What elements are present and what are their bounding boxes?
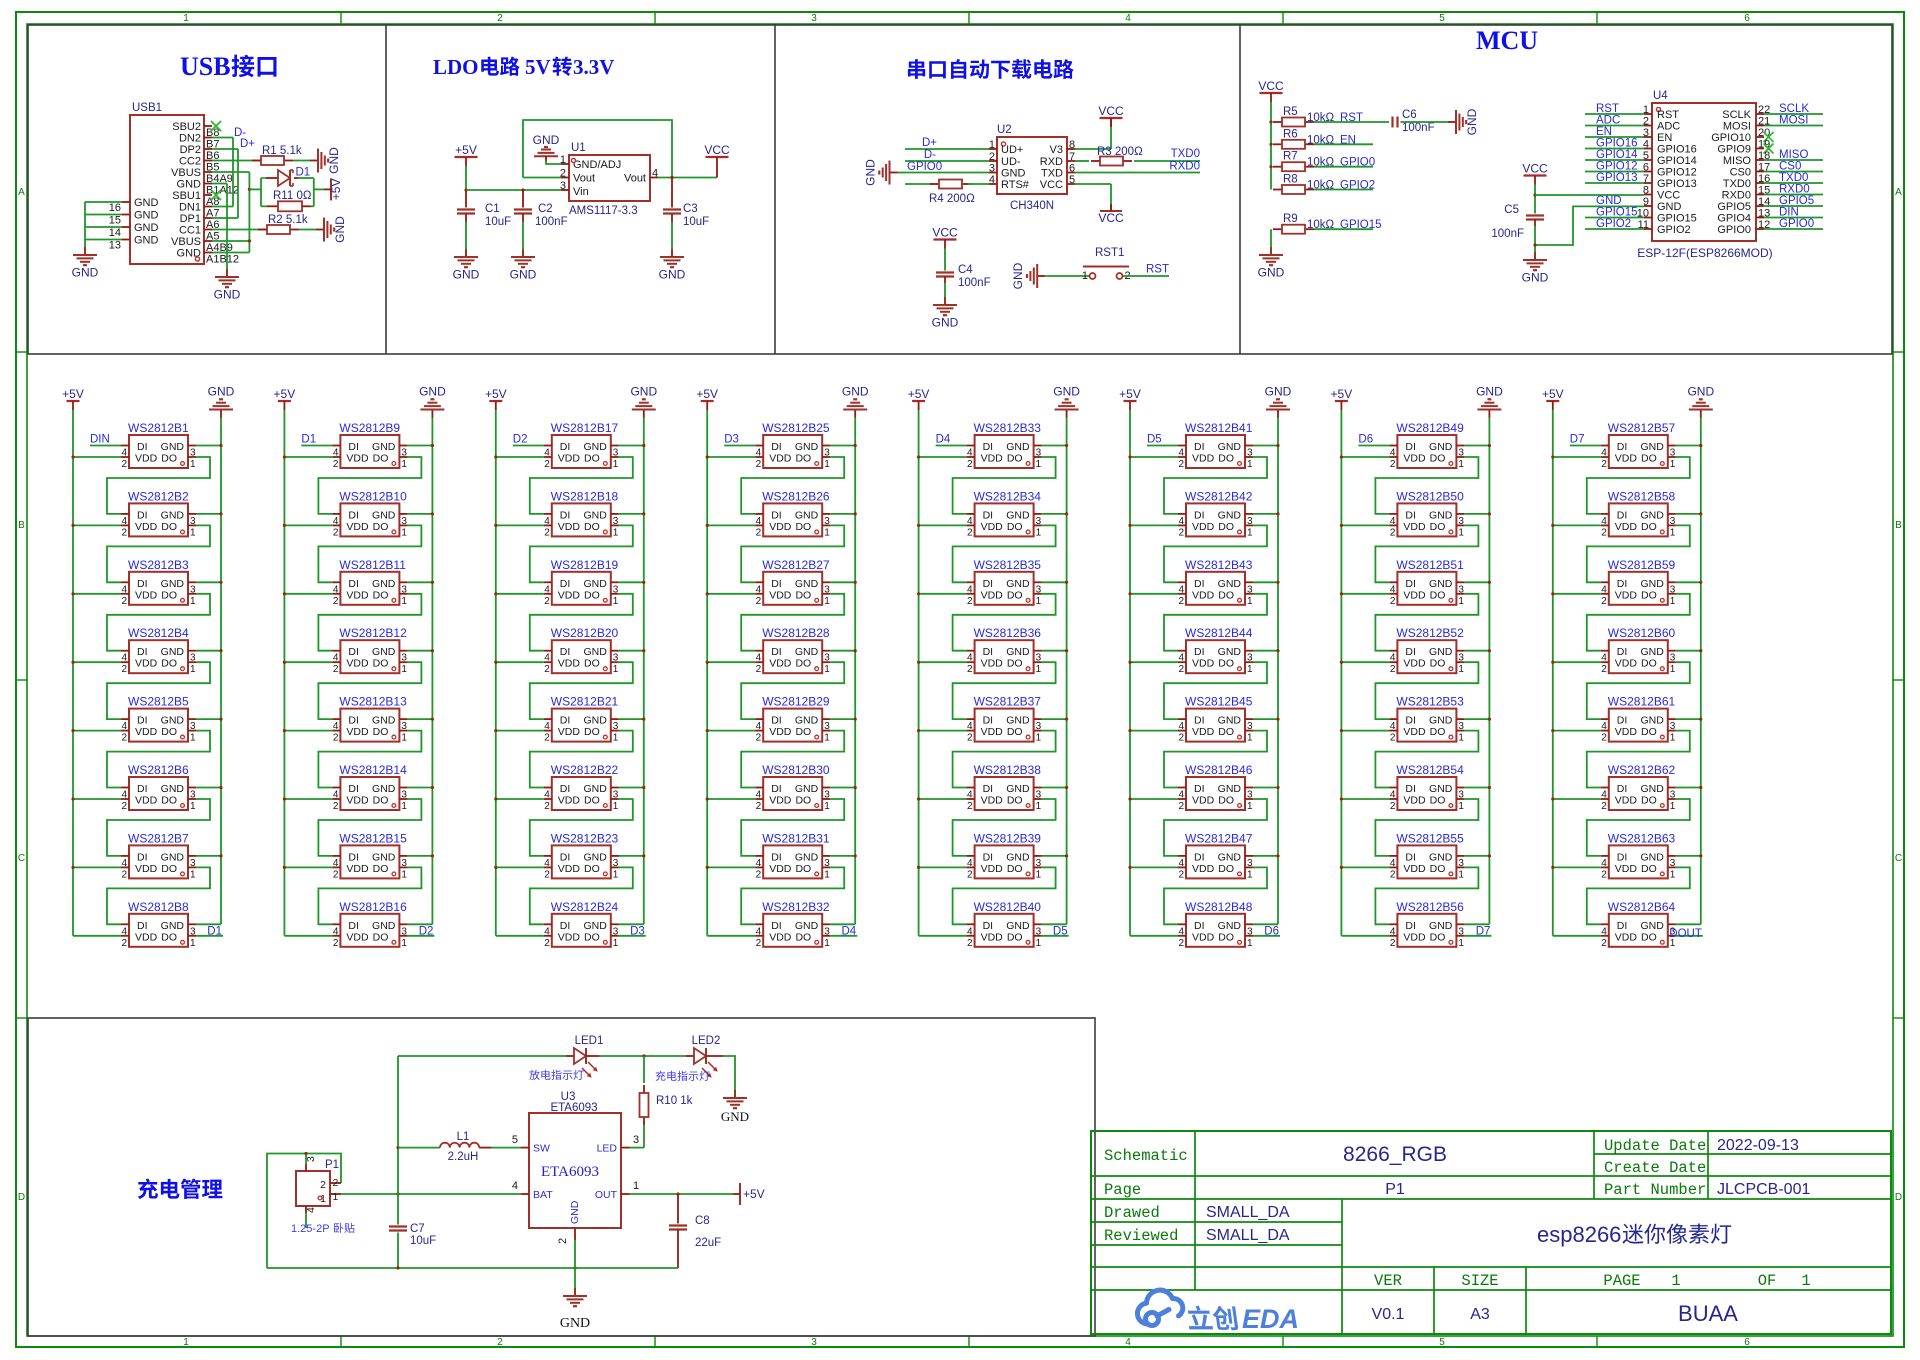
svg-text:4: 4 (1390, 448, 1396, 459)
svg-text:3: 3 (1247, 721, 1253, 732)
svg-text:4: 4 (756, 653, 762, 664)
svg-text:DI: DI (771, 715, 782, 727)
svg-text:Schematic: Schematic (1104, 1147, 1188, 1165)
svg-text:2: 2 (1178, 596, 1184, 607)
svg-text:DI: DI (348, 715, 359, 727)
svg-text:3: 3 (401, 790, 407, 801)
svg-text:WS2812B57: WS2812B57 (1608, 421, 1676, 435)
svg-text:WS2812B35: WS2812B35 (974, 558, 1042, 572)
svg-text:DO: DO (1641, 726, 1657, 738)
svg-text:R1 5.1k: R1 5.1k (262, 145, 302, 157)
svg-text:4: 4 (967, 516, 973, 527)
svg-text:GPIO15: GPIO15 (1596, 207, 1638, 219)
svg-text:4: 4 (544, 653, 550, 664)
svg-text:3: 3 (190, 721, 196, 732)
svg-text:VDD: VDD (558, 589, 581, 601)
svg-text:DIN: DIN (90, 434, 110, 446)
svg-text:DI: DI (560, 441, 571, 453)
svg-text:DO: DO (1218, 795, 1234, 807)
svg-text:GND: GND (161, 851, 185, 863)
svg-text:+5V: +5V (485, 387, 507, 401)
svg-text:4: 4 (652, 168, 658, 180)
svg-text:2: 2 (1178, 664, 1184, 675)
svg-text:WS2812B59: WS2812B59 (1608, 558, 1676, 572)
svg-text:DO: DO (1218, 931, 1234, 943)
svg-text:2: 2 (544, 801, 550, 812)
svg-text:GND: GND (1640, 715, 1664, 727)
svg-text:JLCPCB-001: JLCPCB-001 (1717, 1181, 1810, 1198)
svg-text:DI: DI (771, 578, 782, 590)
svg-text:DO: DO (584, 863, 600, 875)
svg-text:DI: DI (137, 441, 148, 453)
svg-text:4: 4 (756, 516, 762, 527)
svg-text:4: 4 (1178, 721, 1184, 732)
svg-text:MISO: MISO (1723, 155, 1752, 167)
svg-text:GND: GND (372, 646, 396, 658)
svg-text:V3: V3 (1050, 144, 1063, 156)
svg-text:DN1: DN1 (179, 202, 201, 214)
svg-text:GND: GND (1218, 851, 1242, 863)
svg-text:GND: GND (1522, 271, 1549, 285)
svg-text:4: 4 (756, 584, 762, 595)
svg-text:WS2812B22: WS2812B22 (551, 763, 619, 777)
svg-text:4: 4 (1178, 790, 1184, 801)
svg-text:1: 1 (1670, 801, 1676, 812)
svg-text:GND: GND (372, 783, 396, 795)
svg-text:3: 3 (401, 584, 407, 595)
svg-text:DI: DI (1194, 783, 1205, 795)
svg-text:3: 3 (1036, 790, 1042, 801)
svg-text:4: 4 (333, 858, 339, 869)
svg-text:2: 2 (333, 527, 339, 538)
svg-text:3: 3 (824, 448, 830, 459)
svg-text:DO: DO (1430, 795, 1446, 807)
svg-text:WS2812B32: WS2812B32 (762, 900, 830, 914)
svg-text:1: 1 (613, 527, 619, 538)
svg-text:TXD0: TXD0 (1779, 172, 1808, 184)
svg-text:GND: GND (1429, 715, 1453, 727)
svg-text:GPIO10: GPIO10 (1711, 132, 1751, 144)
svg-text:WS2812B2: WS2812B2 (128, 489, 189, 503)
svg-text:3: 3 (1247, 926, 1253, 937)
svg-text:2: 2 (1601, 664, 1607, 675)
svg-text:3: 3 (1458, 584, 1464, 595)
svg-text:1: 1 (1247, 938, 1253, 949)
svg-text:4: 4 (1601, 516, 1607, 527)
svg-text:3: 3 (824, 926, 830, 937)
svg-text:3: 3 (1458, 516, 1464, 527)
svg-text:WS2812B58: WS2812B58 (1608, 489, 1676, 503)
svg-text:RXD0: RXD0 (1169, 161, 1200, 173)
svg-text:GND: GND (863, 159, 877, 186)
svg-text:4: 4 (333, 653, 339, 664)
svg-text:GND: GND (1429, 578, 1453, 590)
svg-text:WS2812B19: WS2812B19 (551, 558, 619, 572)
svg-text:10uF: 10uF (485, 216, 511, 228)
svg-text:WS2812B52: WS2812B52 (1396, 626, 1464, 640)
svg-text:UD-: UD- (1001, 156, 1021, 168)
svg-text:5V: 5V (525, 55, 551, 79)
svg-text:2: 2 (497, 1337, 503, 1348)
svg-text:VDD: VDD (981, 726, 1004, 738)
svg-text:DOUT: DOUT (1669, 928, 1702, 940)
svg-text:1: 1 (633, 1180, 639, 1192)
svg-text:2: 2 (1390, 527, 1396, 538)
svg-text:+5V: +5V (1119, 387, 1141, 401)
svg-text:SCLK: SCLK (1779, 103, 1809, 115)
svg-text:C5: C5 (1504, 204, 1519, 216)
svg-text:2: 2 (1601, 596, 1607, 607)
svg-text:Vout: Vout (573, 173, 595, 185)
svg-text:VDD: VDD (558, 795, 581, 807)
svg-text:3: 3 (1458, 721, 1464, 732)
svg-text:14: 14 (109, 227, 121, 239)
svg-text:RXD: RXD (1040, 156, 1063, 168)
svg-text:2: 2 (967, 869, 973, 880)
svg-text:GND: GND (1218, 920, 1242, 932)
svg-text:VDD: VDD (558, 726, 581, 738)
svg-text:4: 4 (333, 721, 339, 732)
svg-text:VDD: VDD (769, 726, 792, 738)
svg-text:2: 2 (1601, 869, 1607, 880)
svg-text:GND: GND (1465, 108, 1479, 135)
svg-text:100nF: 100nF (535, 216, 568, 228)
svg-text:DI: DI (137, 920, 148, 932)
svg-text:1: 1 (333, 1191, 339, 1203)
svg-text:GND: GND (583, 578, 607, 590)
svg-text:DO: DO (1007, 795, 1023, 807)
svg-text:3: 3 (1458, 448, 1464, 459)
svg-text:GND: GND (333, 216, 347, 243)
svg-text:GND: GND (1640, 783, 1664, 795)
svg-text:3: 3 (1670, 721, 1676, 732)
svg-text:1: 1 (1670, 869, 1676, 880)
svg-text:GND: GND (932, 316, 959, 330)
svg-text:3: 3 (613, 516, 619, 527)
svg-text:RXD0: RXD0 (1722, 190, 1751, 202)
svg-text:4: 4 (121, 926, 127, 937)
svg-text:2: 2 (544, 596, 550, 607)
svg-text:4: 4 (1390, 721, 1396, 732)
svg-text:SMALL_DA: SMALL_DA (1206, 1204, 1290, 1221)
svg-text:DI: DI (560, 578, 571, 590)
svg-text:9: 9 (1643, 196, 1649, 208)
svg-text:4: 4 (1601, 653, 1607, 664)
svg-text:GND: GND (161, 715, 185, 727)
svg-text:GND: GND (161, 920, 185, 932)
svg-text:2.2uH: 2.2uH (448, 1151, 479, 1163)
svg-text:DN2: DN2 (179, 133, 201, 145)
svg-text:4: 4 (512, 1180, 518, 1192)
svg-text:VDD: VDD (135, 521, 158, 533)
svg-text:GND: GND (372, 509, 396, 521)
svg-text:VDD: VDD (1192, 658, 1215, 670)
svg-text:4: 4 (1601, 448, 1607, 459)
svg-text:DI: DI (1194, 441, 1205, 453)
svg-text:DO: DO (795, 726, 811, 738)
svg-text:1: 1 (1458, 733, 1464, 744)
svg-text:7: 7 (1069, 151, 1075, 163)
svg-text:1: 1 (401, 801, 407, 812)
svg-text:DI: DI (983, 851, 994, 863)
svg-text:4: 4 (121, 721, 127, 732)
svg-text:DI: DI (983, 646, 994, 658)
svg-text:VDD: VDD (1192, 931, 1215, 943)
svg-text:VDD: VDD (346, 658, 369, 670)
svg-text:DO: DO (795, 521, 811, 533)
svg-text:C7: C7 (410, 1223, 425, 1235)
svg-text:DO: DO (795, 589, 811, 601)
svg-text:WS2812B44: WS2812B44 (1185, 626, 1253, 640)
svg-text:VDD: VDD (1403, 726, 1426, 738)
svg-text:3: 3 (1247, 790, 1253, 801)
svg-text:GND: GND (1006, 715, 1030, 727)
svg-text:GND: GND (583, 441, 607, 453)
svg-text:2: 2 (1601, 938, 1607, 949)
svg-text:4: 4 (305, 1207, 317, 1213)
svg-text:DI: DI (771, 851, 782, 863)
svg-text:VDD: VDD (135, 453, 158, 465)
svg-text:4: 4 (1125, 13, 1131, 24)
svg-text:2: 2 (756, 596, 762, 607)
svg-text:A1B12: A1B12 (206, 254, 239, 266)
svg-text:GND: GND (1006, 851, 1030, 863)
svg-text:GND/ADJ: GND/ADJ (573, 159, 621, 171)
svg-text:R9: R9 (1283, 213, 1298, 225)
svg-text:4: 4 (333, 790, 339, 801)
svg-text:1: 1 (190, 938, 196, 949)
svg-text:GND: GND (161, 441, 185, 453)
svg-text:GND: GND (1640, 646, 1664, 658)
svg-text:4: 4 (121, 858, 127, 869)
svg-text:2: 2 (121, 733, 127, 744)
svg-text:GPIO2: GPIO2 (1596, 218, 1631, 230)
svg-text:1: 1 (1036, 938, 1042, 949)
svg-text:1: 1 (613, 938, 619, 949)
svg-text:GPIO5: GPIO5 (1717, 201, 1751, 213)
svg-text:4: 4 (121, 653, 127, 664)
svg-text:Vout: Vout (624, 173, 646, 185)
svg-text:3: 3 (824, 858, 830, 869)
svg-text:BUAA: BUAA (1678, 1301, 1738, 1326)
svg-text:4: 4 (544, 926, 550, 937)
svg-text:1: 1 (401, 733, 407, 744)
svg-text:C3: C3 (683, 203, 698, 215)
svg-text:Part Number: Part Number (1604, 1181, 1706, 1199)
svg-text:4: 4 (1601, 858, 1607, 869)
svg-text:VDD: VDD (346, 453, 369, 465)
svg-text:2: 2 (756, 938, 762, 949)
svg-text:AMS1117-3.3: AMS1117-3.3 (569, 205, 638, 217)
svg-text:DI: DI (983, 715, 994, 727)
svg-text:DI: DI (1617, 578, 1628, 590)
svg-text:WS2812B15: WS2812B15 (339, 831, 407, 845)
svg-text:4: 4 (1125, 1337, 1131, 1348)
svg-text:4: 4 (1601, 584, 1607, 595)
svg-text:Drawed: Drawed (1104, 1204, 1160, 1222)
svg-text:1: 1 (1036, 527, 1042, 538)
svg-text:2: 2 (1178, 869, 1184, 880)
svg-text:4: 4 (967, 653, 973, 664)
svg-text:GND: GND (795, 646, 819, 658)
svg-text:OF: OF (1758, 1272, 1777, 1290)
svg-text:BAT: BAT (533, 1189, 553, 1201)
svg-text:LDO: LDO (433, 55, 479, 79)
svg-text:GND: GND (1640, 851, 1664, 863)
svg-text:A3: A3 (1470, 1306, 1490, 1323)
svg-text:WS2812B45: WS2812B45 (1185, 695, 1253, 709)
svg-text:1: 1 (613, 733, 619, 744)
svg-text:WS2812B4: WS2812B4 (128, 626, 189, 640)
svg-text:DI: DI (1617, 783, 1628, 795)
svg-text:3: 3 (824, 721, 830, 732)
svg-text:DI: DI (1405, 715, 1416, 727)
svg-text:100nF: 100nF (958, 277, 991, 289)
svg-text:2: 2 (320, 1179, 326, 1191)
svg-text:DI: DI (983, 920, 994, 932)
svg-text:RST: RST (1146, 264, 1169, 276)
svg-text:1: 1 (183, 13, 189, 24)
svg-text:WS2812B55: WS2812B55 (1396, 831, 1464, 845)
svg-text:R8: R8 (1283, 174, 1298, 186)
svg-text:GND: GND (1429, 509, 1453, 521)
svg-text:3: 3 (1458, 653, 1464, 664)
svg-text:DO: DO (795, 931, 811, 943)
svg-text:1: 1 (989, 139, 995, 151)
svg-text:RST: RST (1596, 103, 1619, 115)
svg-text:GND: GND (134, 235, 159, 247)
svg-text:SBU2: SBU2 (172, 121, 201, 133)
svg-text:esp8266: esp8266 (1537, 1222, 1621, 1247)
svg-text:1: 1 (1247, 869, 1253, 880)
svg-text:4: 4 (1178, 858, 1184, 869)
svg-text:RST1: RST1 (1095, 247, 1124, 259)
svg-text:TXD0: TXD0 (1723, 178, 1751, 190)
svg-text:2: 2 (756, 801, 762, 812)
svg-text:Create Date: Create Date (1604, 1159, 1706, 1177)
svg-text:DI: DI (1194, 646, 1205, 658)
svg-text:4: 4 (1390, 516, 1396, 527)
svg-text:D3: D3 (724, 434, 739, 446)
svg-text:GND: GND (372, 920, 396, 932)
svg-text:VDD: VDD (981, 863, 1004, 875)
svg-text:DO: DO (584, 521, 600, 533)
svg-text:DO: DO (161, 453, 177, 465)
svg-text:3: 3 (1458, 790, 1464, 801)
svg-text:3: 3 (401, 516, 407, 527)
svg-text:1: 1 (190, 664, 196, 675)
svg-text:1: 1 (1458, 527, 1464, 538)
svg-text:WS2812B31: WS2812B31 (762, 831, 830, 845)
svg-text:WS2812B25: WS2812B25 (762, 421, 830, 435)
svg-text:Update Date: Update Date (1604, 1137, 1706, 1155)
svg-text:GPIO4: GPIO4 (1717, 213, 1751, 225)
svg-text:VDD: VDD (1403, 931, 1426, 943)
svg-text:DI: DI (560, 646, 571, 658)
svg-text:VDD: VDD (981, 589, 1004, 601)
svg-text:GND: GND (583, 715, 607, 727)
svg-text:+5V: +5V (696, 387, 718, 401)
svg-text:GND: GND (1218, 646, 1242, 658)
svg-text:1: 1 (1247, 733, 1253, 744)
svg-text:1: 1 (824, 459, 830, 470)
svg-text:1: 1 (1670, 596, 1676, 607)
svg-text:3: 3 (1670, 790, 1676, 801)
svg-text:4: 4 (1601, 721, 1607, 732)
svg-text:EDA: EDA (1242, 1304, 1299, 1334)
svg-text:C: C (1895, 853, 1902, 864)
svg-text:ADC: ADC (1657, 121, 1680, 133)
svg-text:2: 2 (756, 869, 762, 880)
svg-text:VDD: VDD (558, 453, 581, 465)
svg-text:GND: GND (1429, 646, 1453, 658)
svg-text:VDD: VDD (135, 589, 158, 601)
svg-text:D2: D2 (419, 925, 434, 937)
svg-text:4: 4 (1178, 926, 1184, 937)
svg-text:DI: DI (1405, 851, 1416, 863)
svg-text:VDD: VDD (346, 521, 369, 533)
svg-text:DO: DO (373, 589, 389, 601)
svg-text:PAGE: PAGE (1603, 1272, 1640, 1290)
svg-text:4: 4 (544, 858, 550, 869)
svg-text:USB: USB (180, 52, 231, 81)
svg-text:3: 3 (1458, 926, 1464, 937)
svg-text:VDD: VDD (135, 863, 158, 875)
svg-text:10uF: 10uF (410, 1235, 436, 1247)
svg-text:3: 3 (1247, 516, 1253, 527)
svg-text:WS2812B33: WS2812B33 (974, 421, 1042, 435)
svg-text:3: 3 (1036, 721, 1042, 732)
svg-text:4: 4 (756, 448, 762, 459)
svg-text:4: 4 (967, 858, 973, 869)
svg-text:DI: DI (137, 715, 148, 727)
svg-text:GND: GND (1640, 578, 1664, 590)
svg-text:ESP-12F(ESP8266MOD): ESP-12F(ESP8266MOD) (1637, 246, 1772, 260)
svg-text:WS2812B63: WS2812B63 (1608, 831, 1676, 845)
svg-text:2: 2 (967, 459, 973, 470)
svg-text:R2 5.1k: R2 5.1k (268, 214, 308, 226)
svg-text:VDD: VDD (1192, 726, 1215, 738)
svg-text:4: 4 (1601, 790, 1607, 801)
svg-text:C4: C4 (958, 264, 973, 276)
svg-text:WS2812B12: WS2812B12 (339, 626, 407, 640)
svg-text:GND: GND (630, 384, 657, 398)
svg-text:D-: D- (924, 149, 936, 161)
svg-text:WS2812B14: WS2812B14 (339, 763, 407, 777)
svg-text:2: 2 (333, 869, 339, 880)
svg-text:DO: DO (584, 931, 600, 943)
svg-text:DI: DI (560, 509, 571, 521)
svg-text:GPIO2: GPIO2 (1657, 224, 1691, 236)
svg-text:DO: DO (795, 863, 811, 875)
svg-text:DP2: DP2 (180, 144, 201, 156)
svg-text:1: 1 (613, 459, 619, 470)
svg-text:1: 1 (1247, 596, 1253, 607)
svg-text:B: B (1895, 520, 1902, 531)
svg-text:DI: DI (1405, 441, 1416, 453)
svg-text:WS2812B28: WS2812B28 (762, 626, 830, 640)
svg-text:2: 2 (121, 527, 127, 538)
svg-text:WS2812B64: WS2812B64 (1608, 900, 1676, 914)
svg-text:100nF: 100nF (1402, 122, 1435, 134)
svg-text:3: 3 (613, 858, 619, 869)
svg-text:+5V: +5V (274, 387, 296, 401)
svg-text:DO: DO (1007, 931, 1023, 943)
svg-text:GND: GND (795, 851, 819, 863)
svg-text:LED2: LED2 (692, 1035, 721, 1047)
svg-text:3: 3 (824, 584, 830, 595)
svg-text:D3: D3 (630, 925, 645, 937)
